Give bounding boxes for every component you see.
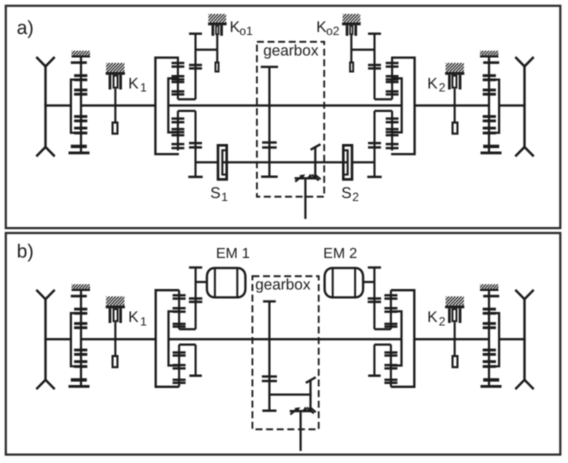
- ground of right axle gear set (panel a): [476, 51, 501, 58]
- svg-text:b): b): [17, 241, 34, 262]
- left gear cluster (panel a): [155, 33, 202, 179]
- svg-text:a): a): [17, 18, 34, 39]
- svg-text:S: S: [210, 185, 220, 202]
- gearbox input gear (panel a): [268, 67, 270, 177]
- svg-text:2: 2: [439, 81, 446, 95]
- ground of clutch Ko2 (panel a): [335, 14, 368, 23]
- panel a frame: [6, 6, 561, 228]
- bevel final drive (panel a): [311, 144, 321, 150]
- wire: Ko1 link to idler line (panel a): [196, 49, 218, 51]
- wire: main shaft right segment (panel a): [415, 104, 489, 106]
- wire: Ko2 link to idler line (panel a): [351, 49, 374, 51]
- svg-text:K: K: [427, 309, 438, 326]
- electric machine EM2 (panel b): [325, 268, 364, 297]
- ground of left axle gear set (panel a): [68, 51, 93, 58]
- ground of clutch Ko1 (panel a): [201, 14, 234, 23]
- right wheel (panel a): [515, 57, 533, 156]
- ground of clutch K2 (panel b): [437, 296, 471, 305]
- clutch K2 (panel b): [445, 306, 464, 368]
- svg-text:1: 1: [221, 190, 228, 204]
- right axle gear set (panel b): [481, 291, 502, 388]
- wire: right axle shaft (panel a): [499, 104, 526, 106]
- wire: secondary shaft (panel a): [196, 161, 375, 163]
- left wheel (panel a): [36, 57, 54, 156]
- right gear cluster (panel a): [367, 33, 414, 179]
- gearbox boundary (panel a): [257, 42, 324, 197]
- gearbox boundary (panel b): [252, 276, 318, 429]
- svg-text:S: S: [341, 185, 351, 202]
- left gear cluster (panel b): [156, 266, 208, 386]
- ground of clutch K1 (panel a): [98, 63, 132, 72]
- svg-text:2: 2: [439, 314, 446, 328]
- right wheel (panel b): [515, 290, 533, 389]
- wire: main shaft center segment (panel a): [168, 104, 401, 106]
- wire: main shaft center segment (panel b): [169, 338, 402, 340]
- clutch K1 (panel b): [106, 306, 125, 368]
- svg-text:1: 1: [140, 314, 147, 328]
- clutch K1 (panel a): [106, 72, 125, 134]
- svg-text:gearbox: gearbox: [255, 276, 311, 293]
- svg-text:K: K: [128, 309, 139, 326]
- ground of left axle gear set (panel b): [68, 284, 93, 291]
- svg-text:K: K: [427, 75, 438, 92]
- gearbox input gear (panel b): [268, 301, 270, 411]
- right axle gear set (panel a): [481, 57, 502, 154]
- right gear cluster (panel b): [363, 266, 415, 386]
- wire: left axle shaft (panel b): [44, 338, 71, 340]
- ground of right axle gear set (panel b): [476, 284, 501, 291]
- ground of clutch K2 (panel a): [437, 63, 471, 72]
- wire: gearbox secondary shaft (panel b): [269, 394, 311, 396]
- synchronizer S2 (panel a): [342, 145, 352, 179]
- wire: right axle shaft (panel b): [499, 338, 526, 340]
- clutch Ko2 (panel a): [342, 23, 360, 72]
- left axle gear set (panel b): [69, 291, 90, 388]
- svg-text:EM 2: EM 2: [323, 246, 357, 262]
- svg-text:o1: o1: [239, 24, 253, 38]
- clutch K2 (panel a): [445, 72, 464, 134]
- wire: left axle shaft (panel a): [44, 104, 71, 106]
- bevel final drive (panel b): [306, 377, 316, 383]
- left axle gear set (panel a): [69, 57, 90, 154]
- synchronizer S1 (panel a): [218, 145, 228, 179]
- svg-text:o2: o2: [326, 24, 340, 38]
- wire: main shaft left segment (panel b): [81, 338, 156, 340]
- wire: main shaft left segment (panel a): [81, 104, 155, 106]
- svg-text:1: 1: [140, 81, 147, 95]
- left wheel (panel b): [36, 290, 54, 389]
- wire: main shaft right segment (panel b): [414, 338, 489, 340]
- panel b frame: [6, 233, 561, 455]
- svg-text:K: K: [128, 75, 139, 92]
- svg-text:gearbox: gearbox: [263, 43, 319, 60]
- svg-text:2: 2: [352, 190, 359, 204]
- svg-text:EM 1: EM 1: [216, 246, 250, 262]
- ground of clutch K1 (panel b): [98, 296, 132, 305]
- electric machine EM1 (panel b): [207, 268, 246, 297]
- clutch Ko1 (panel a): [208, 23, 226, 72]
